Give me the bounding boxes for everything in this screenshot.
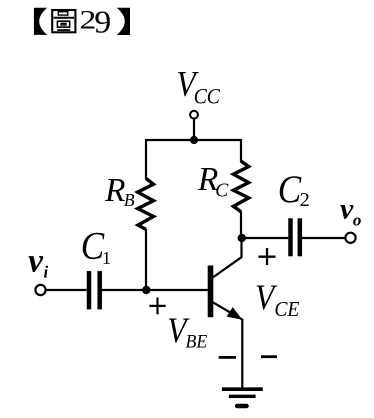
transistor Q1 base bar — [208, 266, 214, 318]
plus sign V_BE — [149, 298, 165, 315]
svg-text:CE: CE — [274, 299, 300, 322]
transistor Q1 collector lead — [212, 238, 242, 278]
wire left branch lower — [145, 229, 147, 290]
label R_C — [197, 161, 229, 202]
wire left branch upper — [145, 139, 147, 179]
label V_CC — [176, 65, 220, 109]
svg-text:v: v — [340, 192, 354, 225]
terminal Vcc — [190, 111, 198, 119]
wire top rail — [146, 139, 241, 141]
transistor Q1 emitter arrowhead — [227, 307, 243, 320]
ground bar 3 — [237, 404, 247, 408]
wire right branch upper — [240, 139, 242, 162]
node base junction — [142, 286, 150, 294]
node Vcc junction — [190, 136, 198, 144]
resistor R_C — [233, 161, 248, 212]
svg-text:9: 9 — [94, 5, 111, 40]
title glyph tu (figure) — [52, 10, 75, 32]
label V_BE — [167, 311, 207, 351]
minus sign right — [261, 355, 277, 358]
svg-text:1: 1 — [102, 248, 111, 268]
ground bar 2 — [229, 395, 256, 398]
title bracket right — [117, 8, 130, 35]
ground bar 1 — [222, 387, 263, 391]
label C_1 — [81, 225, 111, 268]
label V_CE — [255, 278, 300, 321]
svg-text:BE: BE — [186, 331, 208, 351]
wire C2 to output — [302, 237, 345, 239]
capacitor C1 — [89, 271, 100, 309]
wire right branch lower — [240, 212, 242, 239]
transistor Q1 emitter lead — [212, 302, 242, 320]
wire Vcc stub — [193, 119, 195, 140]
svg-text:B: B — [124, 190, 135, 210]
minus sign left — [219, 356, 236, 359]
terminal v_i — [35, 285, 45, 295]
svg-text:i: i — [44, 263, 49, 282]
terminal v_o — [345, 233, 355, 243]
svg-text:2: 2 — [300, 189, 310, 211]
svg-text:R: R — [104, 172, 125, 209]
svg-text:C: C — [215, 181, 229, 202]
plus sign V_CE — [258, 248, 275, 265]
label C_2 — [278, 169, 310, 212]
wire collector to C2 — [242, 237, 288, 239]
node collector junction — [238, 234, 246, 242]
svg-text:v: v — [28, 243, 44, 280]
wire emitter down — [241, 319, 243, 388]
label v_i — [28, 243, 48, 282]
capacitor C2 — [291, 218, 300, 256]
resistor R_B — [138, 179, 154, 230]
wire base — [102, 289, 208, 291]
title bracket left — [34, 8, 47, 35]
label R_B — [104, 172, 135, 210]
wire input — [46, 289, 87, 291]
svg-text:o: o — [353, 211, 362, 230]
label v_o — [340, 192, 361, 229]
svg-text:CC: CC — [194, 83, 221, 108]
